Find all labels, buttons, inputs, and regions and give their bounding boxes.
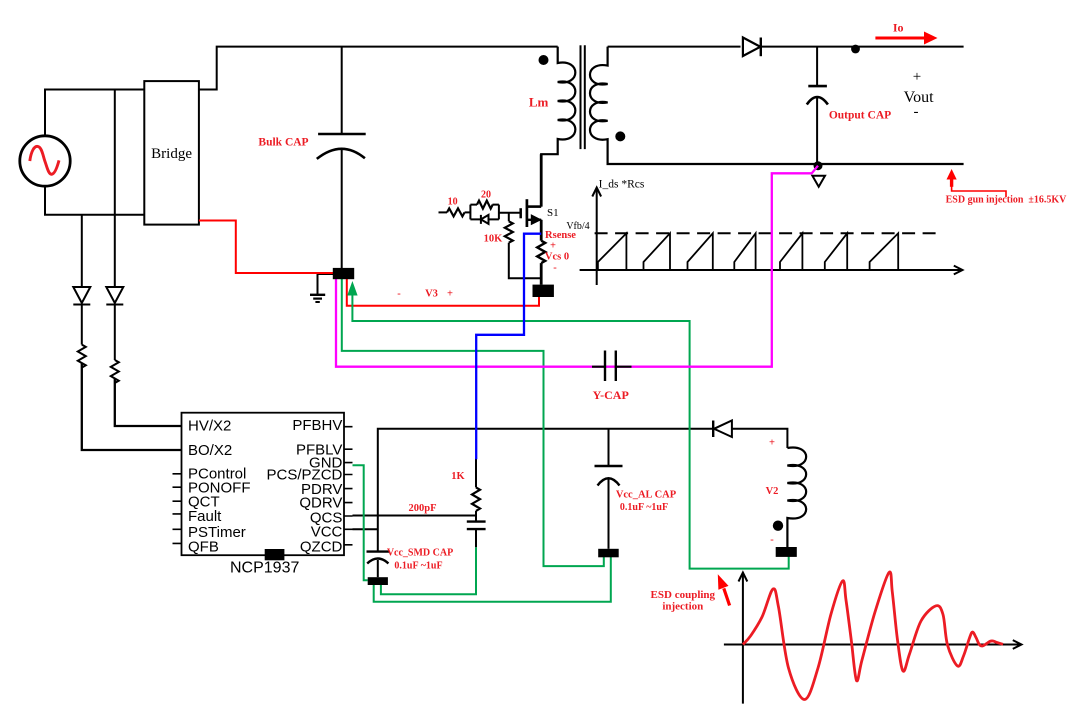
svg-text:200pF: 200pF xyxy=(408,503,436,514)
svg-text:+: + xyxy=(769,438,775,449)
svg-text:V2: V2 xyxy=(766,486,779,497)
svg-text:Output CAP: Output CAP xyxy=(829,110,891,122)
svg-text:NCP1937: NCP1937 xyxy=(230,560,299,577)
svg-text:PFBHV: PFBHV xyxy=(292,417,342,434)
svg-text:V3: V3 xyxy=(425,289,438,300)
svg-text:BO/X2: BO/X2 xyxy=(188,442,232,459)
svg-text:1K: 1K xyxy=(451,471,465,482)
svg-text:+: + xyxy=(550,241,556,252)
svg-text:0.1uF ~1uF: 0.1uF ~1uF xyxy=(394,561,442,572)
svg-text:Bridge: Bridge xyxy=(151,146,192,162)
svg-text:ESD gun injection ±16.5KV: ESD gun injection ±16.5KV xyxy=(946,195,1068,206)
svg-text:ESD coupling: ESD coupling xyxy=(651,589,716,601)
svg-text:Bulk CAP: Bulk CAP xyxy=(258,137,308,149)
svg-text:Rsense: Rsense xyxy=(545,230,576,241)
svg-text:Vcs 0: Vcs 0 xyxy=(545,252,569,263)
svg-text:Fault: Fault xyxy=(188,508,222,525)
svg-text:Y-CAP: Y-CAP xyxy=(593,388,629,402)
svg-text:0.1uF ~1uF: 0.1uF ~1uF xyxy=(620,502,668,513)
svg-text:20: 20 xyxy=(481,190,491,201)
svg-text:-: - xyxy=(553,263,557,274)
svg-text:Io: Io xyxy=(893,21,904,35)
svg-text:Vout: Vout xyxy=(904,89,934,106)
svg-text:QZCD: QZCD xyxy=(300,538,343,555)
svg-text:+: + xyxy=(913,69,921,85)
svg-text:+: + xyxy=(447,289,453,300)
svg-text:10: 10 xyxy=(448,197,458,208)
svg-text:Lm: Lm xyxy=(529,95,549,110)
svg-text:Vcc_AL CAP: Vcc_AL CAP xyxy=(616,489,677,500)
svg-text:Vcc_SMD CAP: Vcc_SMD CAP xyxy=(387,548,453,559)
svg-text:I_ds *Rcs: I_ds *Rcs xyxy=(599,179,645,191)
svg-text:-: - xyxy=(397,289,401,300)
svg-text:HV/X2: HV/X2 xyxy=(188,418,231,435)
svg-text:injection: injection xyxy=(662,600,703,612)
svg-text:QFB: QFB xyxy=(188,538,219,555)
svg-text:-: - xyxy=(770,535,774,546)
svg-text:10K: 10K xyxy=(484,234,504,245)
svg-text:S1: S1 xyxy=(547,207,559,219)
svg-text:-: - xyxy=(914,104,919,120)
